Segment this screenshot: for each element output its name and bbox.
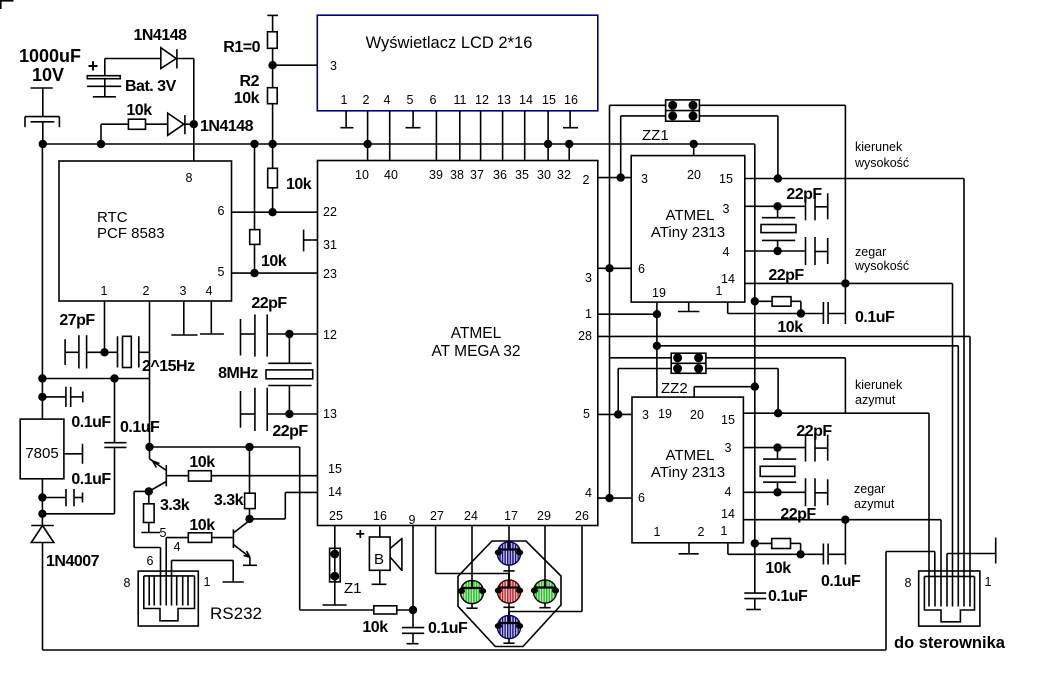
wire pin12 row [289, 333, 317, 335]
svg-text:10k: 10k [234, 90, 260, 107]
capacitor C 1000uF 10V [25, 88, 59, 144]
capacitor 22pF (ATiny2 upper) [806, 434, 828, 462]
wire ATmega pin5 to ATiny2 pin3 [598, 413, 632, 415]
resistor 3.3k (left) [144, 491, 155, 532]
svg-text:ATiny 2313: ATiny 2313 [651, 224, 725, 241]
resistor 10k (Q2 base) [166, 533, 233, 543]
svg-text:azymut: azymut [855, 393, 896, 407]
wire ground rail riser to connector pin2 [886, 552, 935, 651]
wire ZZ1 row2 left to ATmega pin2 [598, 116, 666, 178]
wire ZZ2 row2 right to ATiny2 pin15 [706, 369, 778, 414]
wire ATiny1 pin15 row (kierunek wysokosc) [745, 179, 964, 577]
svg-text:3: 3 [180, 284, 187, 298]
svg-text:3.3k: 3.3k [214, 492, 244, 509]
resistor 10k (pin9 net) [374, 606, 413, 614]
svg-text:10k: 10k [189, 454, 215, 471]
connector do sterownika jack [919, 571, 980, 626]
svg-text:1: 1 [721, 524, 728, 538]
svg-text:31: 31 [323, 238, 337, 252]
svg-text:10: 10 [355, 168, 369, 182]
label 0.1uF (VCC bypass) [768, 588, 808, 605]
capacitor 22pF (ATiny1 upper) [806, 192, 828, 220]
capacitor 22pF (8MHz lower) [241, 388, 290, 431]
svg-text:27pF: 27pF [59, 312, 95, 329]
crystal X1 2^15Hz [105, 336, 150, 367]
wire ATiny1 pin19 to ATiny2 pin19 [656, 302, 658, 397]
svg-text:22pF: 22pF [251, 295, 287, 312]
terminal 7805 output [64, 444, 83, 464]
wire ATiny1 pin14 row (zegar wysokosc) [745, 283, 953, 576]
svg-text:23: 23 [323, 267, 337, 281]
svg-text:+: + [356, 526, 365, 543]
wire ZZ2 row1 right to kierunek azymut row [706, 358, 846, 413]
wire connector pin4 to ground bar [947, 554, 996, 577]
svg-text:2: 2 [143, 284, 150, 298]
diode D1 1N4148 [161, 48, 194, 69]
label 22pF (ATiny2 upper) [796, 423, 832, 440]
svg-text:16: 16 [373, 509, 387, 523]
pin labels LCD bottom row [341, 93, 578, 107]
connector RS232 jack [138, 571, 198, 626]
wire ZZ1 row2 right to pin15 row [699, 116, 778, 179]
pin labels ATmega top row [355, 168, 589, 187]
node ATiny1 pin3 junction [773, 202, 781, 210]
label 10k (battery branch) [126, 102, 152, 119]
wire ZZ2 row2 left to ATiny2 pin3 [618, 369, 671, 415]
LED cluster octagon [458, 541, 561, 647]
svg-text:12: 12 [475, 93, 489, 107]
node 0.1uF tap [38, 393, 46, 401]
transistor Q1 [149, 447, 167, 491]
wire ATmega pin3 to ATiny1 pin6 [598, 267, 631, 269]
wire RTC pin6 to ATmega pin22 [232, 211, 318, 213]
svg-text:8MHz: 8MHz [218, 365, 258, 382]
buzzer B [369, 537, 402, 584]
svg-text:5: 5 [218, 265, 225, 279]
svg-text:ATMEL: ATMEL [666, 207, 715, 224]
page corner mark [0, 0, 14, 9]
wire ZZ1 row1 left [610, 104, 666, 106]
svg-text:16: 16 [564, 93, 578, 107]
wire ATmega pin26 to LED [509, 526, 582, 612]
label Bat. 3V [125, 78, 177, 95]
node ATiny2 pin4 junction [773, 488, 781, 496]
svg-text:1N4007: 1N4007 [46, 553, 100, 570]
ground LCD pin1 [340, 127, 353, 129]
svg-text:13: 13 [323, 407, 337, 421]
LED D4 blue top [495, 542, 523, 574]
label 2^15Hz [142, 358, 195, 375]
node pin9 junction [409, 606, 417, 614]
node ATiny2 pin3r junction [773, 443, 781, 451]
LED D7 green right [531, 580, 559, 608]
label 22pF (ATiny1 lower) [768, 267, 804, 284]
label RTC PCF 8583 [97, 209, 165, 242]
svg-text:1N4148: 1N4148 [133, 27, 187, 44]
svg-text:0.1uF: 0.1uF [768, 588, 808, 605]
svg-text:zegar: zegar [855, 245, 886, 259]
capacitor 0.1uF (ATiny1 reset) [801, 283, 846, 324]
wire LCD pin5 stub [412, 111, 414, 128]
svg-text:0.1uF: 0.1uF [855, 309, 895, 326]
node Q2 collector junction [245, 515, 253, 523]
label 10k (Q1 base) [189, 454, 215, 471]
label 0.1uF (ATiny2 reset) [821, 573, 861, 590]
label 1000uF 10V [19, 46, 81, 85]
wire RS232 pin5 [165, 538, 167, 577]
wire RC rail (447) [150, 446, 300, 448]
svg-text:B: B [374, 551, 384, 568]
node ATiny2 reset junction [796, 550, 804, 558]
node 3.3k tap on 447 rail [245, 443, 253, 451]
svg-text:wysokość: wysokość [854, 259, 909, 273]
svg-text:Z1: Z1 [344, 580, 362, 597]
label 1N4007 [46, 553, 100, 570]
node diode junction [190, 120, 198, 128]
node 1N4007 top [38, 510, 46, 518]
label 10k (ATiny1 reset) [777, 319, 803, 336]
svg-text:R1=0: R1=0 [223, 39, 260, 56]
label Z1 [344, 580, 362, 597]
svg-text:6: 6 [430, 93, 437, 107]
wire 7805 bottom column [41, 479, 43, 525]
pin labels RS232 [124, 526, 211, 590]
wire Q1 collector to RS232 riser [134, 490, 149, 492]
label ATMEL ATiny 2313 (upper) [651, 207, 725, 241]
node pin15 ZZ1 junction [774, 174, 782, 182]
svg-text:15: 15 [328, 462, 342, 476]
svg-text:14: 14 [721, 272, 735, 286]
label + (battery) [88, 56, 99, 76]
node ZZ1 pads [668, 101, 697, 121]
svg-text:10k: 10k [765, 560, 791, 577]
svg-text:1N4148: 1N4148 [200, 118, 254, 135]
wire ATiny2 pin14 row (zegar azymut) [743, 520, 941, 577]
ground 3.3k left [141, 532, 160, 534]
node emitter rail junction [145, 443, 153, 451]
svg-text:RS232: RS232 [210, 604, 262, 623]
label 3.3k (right) [214, 492, 244, 509]
svg-text:4: 4 [585, 486, 592, 500]
wire ATmega pin24 to LED [471, 526, 473, 581]
diode D3 1N4007 [31, 526, 54, 651]
svg-text:AT MEGA 32: AT MEGA 32 [431, 343, 520, 360]
node ATiny2 pin15 junction [774, 409, 782, 417]
svg-text:37: 37 [470, 168, 484, 182]
wire buzzer 10k row [300, 609, 374, 611]
label 7805 [25, 445, 58, 462]
IC U5 ATiny 2313 (lower) [632, 397, 743, 543]
svg-text:1: 1 [985, 575, 992, 589]
label ZZ2 [661, 380, 688, 397]
label + (buzzer) [356, 526, 365, 543]
wire 447 rail corner down [299, 447, 301, 610]
label 22pF (ATiny2 lower) [780, 506, 816, 523]
svg-text:30: 30 [537, 168, 551, 182]
svg-text:13: 13 [497, 93, 511, 107]
svg-text:8: 8 [905, 576, 912, 590]
node 5V row junctions [38, 374, 119, 382]
ground LCD pin5 [406, 127, 421, 129]
capacitor 0.1uF (vertical on 5V row) [104, 379, 126, 514]
wire pin19 row to connector [657, 346, 958, 577]
svg-text:1: 1 [654, 525, 661, 539]
node ATmega pin13 junction [285, 410, 293, 418]
svg-text:35: 35 [515, 168, 529, 182]
label 0.1uF (7805 input) [71, 414, 111, 431]
capacitor 22pF (8MHz upper) [241, 314, 290, 356]
label ZZ1 [642, 127, 669, 144]
pin 5 label RTC [218, 265, 225, 279]
node VCC pin20 tap (ATiny2) [751, 383, 759, 391]
wire RS232 pin6 riser [134, 491, 160, 576]
wire ATmega pin9 column [412, 526, 414, 611]
wire LCD pin6 to ATmega pin39 [435, 111, 437, 161]
IC U3 7805 [20, 419, 64, 479]
wire ZZ1/pin6 long vertical [609, 105, 611, 498]
svg-text:3: 3 [641, 172, 648, 186]
svg-text:10V: 10V [32, 65, 64, 85]
svg-text:1: 1 [341, 93, 348, 107]
svg-text:15: 15 [719, 172, 733, 186]
svg-text:14: 14 [519, 93, 533, 107]
node ATmega pin2 junction [617, 173, 625, 181]
svg-text:19: 19 [658, 407, 672, 421]
wire LCD pin4 to ATmega pin40 [389, 111, 391, 161]
label zegar azymut [854, 482, 895, 511]
label 22pF (8MHz lower) [272, 423, 308, 440]
svg-text:10k: 10k [261, 253, 287, 270]
svg-text:4: 4 [384, 93, 391, 107]
wire ATiny1 pin20 VCC stub [693, 144, 695, 156]
label 0.1uF (vertical cap) [120, 419, 160, 436]
terminal bar ATmega pin31 [304, 230, 318, 252]
svg-text:wysokość: wysokość [854, 156, 909, 170]
label 22pF (8MHz upper) [251, 295, 287, 312]
svg-text:10k: 10k [286, 176, 312, 193]
svg-text:RTC: RTC [97, 209, 128, 226]
diode D2 1N4148 [168, 113, 194, 135]
label 10k (ATiny2 reset) [765, 560, 791, 577]
label Wyswietlacz LCD 2*16 [366, 34, 533, 52]
node VCC 10k tap (ATiny2) [751, 539, 759, 547]
label kierunek azymut [855, 378, 903, 407]
ground ATiny2 bottom [679, 543, 699, 554]
wire RTC pin5 to ATmega pin23 [232, 272, 318, 274]
label 22pF (ATiny1 upper) [786, 186, 822, 203]
svg-text:1: 1 [716, 284, 723, 298]
svg-text:25: 25 [329, 509, 343, 523]
wire LCD pin13 to ATmega pin36 [502, 111, 504, 161]
label 0.1uF (pin9) [428, 620, 468, 637]
svg-text:15: 15 [542, 93, 556, 107]
svg-text:3: 3 [642, 408, 649, 422]
svg-text:22pF: 22pF [796, 423, 832, 440]
svg-text:Bat. 3V: Bat. 3V [125, 78, 177, 95]
wire ATmega pin27 to LED [436, 526, 509, 574]
svg-text:R2: R2 [240, 73, 260, 90]
wire ATiny2 pin1 reset [728, 543, 801, 555]
svg-text:10k: 10k [362, 619, 388, 636]
label R2 10k [234, 73, 260, 107]
svg-text:5: 5 [407, 93, 414, 107]
pin labels do sterownika [905, 575, 992, 590]
ground Z1 [323, 604, 347, 606]
ground ATiny1 bottom [678, 302, 700, 311]
crystal X2 8MHz [266, 334, 313, 414]
svg-text:ZZ1: ZZ1 [642, 127, 669, 144]
jumper Z1 [330, 548, 341, 582]
svg-text:0.1uF: 0.1uF [71, 414, 111, 431]
capacitor 0.1uF (pin9) [402, 610, 424, 644]
wire left supply column [41, 144, 43, 419]
node Z1 pads [330, 550, 339, 581]
svg-text:27: 27 [430, 509, 444, 523]
svg-text:39: 39 [429, 168, 443, 182]
svg-text:1: 1 [204, 575, 211, 589]
node RTC pin1 crystal junction [100, 348, 108, 356]
svg-text:4: 4 [725, 485, 732, 499]
svg-text:3: 3 [330, 59, 337, 73]
svg-text:kierunek: kierunek [855, 140, 903, 154]
label 0.1uF (lower left) [71, 471, 111, 488]
node pin6 junction [605, 264, 613, 272]
node ATiny1 pin4 junction [773, 247, 781, 255]
wire to RS232 ground net [42, 513, 114, 515]
node rail junctions [39, 140, 698, 148]
svg-text:3: 3 [725, 441, 732, 455]
svg-text:22pF: 22pF [786, 186, 822, 203]
label R1=0 [223, 39, 260, 56]
node pin23 row junction [250, 269, 258, 277]
svg-text:0.1uF: 0.1uF [821, 573, 861, 590]
wire ATiny2 pin3 row [743, 447, 805, 449]
svg-text:ATiny 2313: ATiny 2313 [651, 464, 725, 481]
svg-text:19: 19 [652, 286, 666, 300]
svg-text:11: 11 [454, 93, 467, 107]
svg-text:4: 4 [206, 284, 213, 298]
svg-text:+: + [88, 56, 99, 76]
svg-text:20: 20 [687, 168, 701, 182]
ground RTC pin4 [200, 301, 224, 334]
wire ATmega pin4 to ATiny2 pin6 [598, 497, 632, 499]
wire 5V row to RTC pin2 column [42, 378, 149, 380]
svg-text:kierunek: kierunek [855, 378, 903, 392]
label 0.1uF (ATiny1 reset) [855, 309, 895, 326]
svg-text:10k: 10k [189, 517, 215, 534]
node ZZ2 pin3 junction [614, 410, 622, 418]
svg-text:5: 5 [160, 526, 167, 540]
pin labels ATmega bottom row [329, 509, 589, 527]
wire ZZ1 row1 right to pin14 row [699, 105, 845, 283]
capacitor 22pF (ATiny2 lower) [806, 478, 828, 506]
ground RTC pin3 [171, 301, 197, 335]
wire RTC pin2 column [149, 301, 151, 447]
svg-text:Wyświetlacz LCD 2*16: Wyświetlacz LCD 2*16 [366, 34, 533, 52]
crystal X3 (ATiny1) [761, 206, 796, 251]
svg-text:do sterownika: do sterownika [894, 634, 1006, 652]
capacitor 27pF [65, 335, 104, 368]
ground LCD pin16 [563, 127, 578, 129]
wire ATiny1 pin4 row [745, 250, 806, 252]
svg-text:22pF: 22pF [768, 267, 804, 284]
svg-text:2: 2 [583, 173, 590, 187]
svg-text:4: 4 [174, 540, 181, 554]
ground buzzer [372, 583, 387, 585]
label 1N4148 (top) [133, 27, 187, 44]
svg-text:26: 26 [575, 509, 589, 523]
svg-text:5: 5 [583, 407, 590, 421]
svg-text:6: 6 [147, 554, 154, 568]
ground Q2 emitter [243, 564, 257, 566]
wire LCD pin11 to ATmega pin38 [459, 111, 461, 161]
jumper ZZ2 [671, 353, 706, 373]
node Q1 collector junction [145, 487, 153, 495]
pin 6 label RTC [218, 204, 225, 218]
svg-text:4: 4 [723, 245, 730, 259]
wire LCD pin1 stub [345, 111, 347, 128]
resistor 10k (pull-up to pin23) [250, 144, 260, 273]
label 8MHz [218, 365, 258, 382]
LED D5 green left [458, 580, 486, 608]
wire RTC pin1 [104, 301, 106, 352]
label ATMEL AT MEGA 32 [431, 325, 520, 360]
svg-text:ATMEL: ATMEL [451, 325, 502, 342]
IC U2 RTC PCF 8583 [59, 161, 232, 301]
wire ZZ2 row1 left [610, 357, 672, 359]
svg-text:22pF: 22pF [272, 423, 308, 440]
svg-text:20: 20 [690, 408, 704, 422]
jumper ZZ1 [666, 100, 700, 121]
label 10k (pull-up pin22) [286, 176, 312, 193]
wire ATiny2 pin4 row [743, 491, 805, 493]
pin labels ATmega right side [578, 271, 592, 500]
wire LCD pin12 to ATmega pin37 [480, 111, 482, 161]
node ATiny1 reset junction [797, 309, 805, 317]
LED D8 blue bottom [495, 612, 523, 644]
resistor 10k (pull-up to pin22) [268, 144, 278, 212]
label do sterownika [894, 634, 1006, 652]
svg-text:24: 24 [464, 509, 478, 523]
IC LCD display box [317, 15, 598, 111]
node VCC 10k tap (ATiny1) [751, 297, 759, 305]
svg-text:17: 17 [504, 509, 518, 523]
label 10k (Q2 base) [189, 517, 215, 534]
wire battery to diode D1 [105, 58, 161, 60]
label RS232 [210, 604, 262, 623]
svg-text:7805: 7805 [25, 445, 58, 462]
label zegar wysokosc [854, 245, 909, 273]
svg-text:22: 22 [323, 205, 337, 219]
svg-text:6: 6 [218, 204, 225, 218]
pin 8 label RTC [186, 171, 193, 185]
wire LCD pin2 to ATmega pin10 [367, 111, 369, 161]
pin labels ATiny upper [638, 168, 735, 300]
svg-text:14: 14 [721, 507, 735, 521]
node 0.1uF lower tap [38, 493, 46, 501]
svg-text:28: 28 [578, 329, 592, 343]
wire bottom ground rail [43, 649, 887, 651]
ground bar (do sterownika) [995, 538, 997, 564]
node pin22 row junction [268, 208, 276, 216]
resistor 10k (ATiny2 reset) [755, 539, 801, 555]
svg-text:10k: 10k [126, 102, 152, 119]
resistor R2 10k [268, 65, 278, 144]
svg-text:0.1uF: 0.1uF [120, 419, 160, 436]
resistor 10k (ATiny1 reset) [755, 297, 801, 314]
svg-text:3: 3 [585, 271, 592, 285]
node ATiny2 pin14 junction [841, 516, 849, 524]
